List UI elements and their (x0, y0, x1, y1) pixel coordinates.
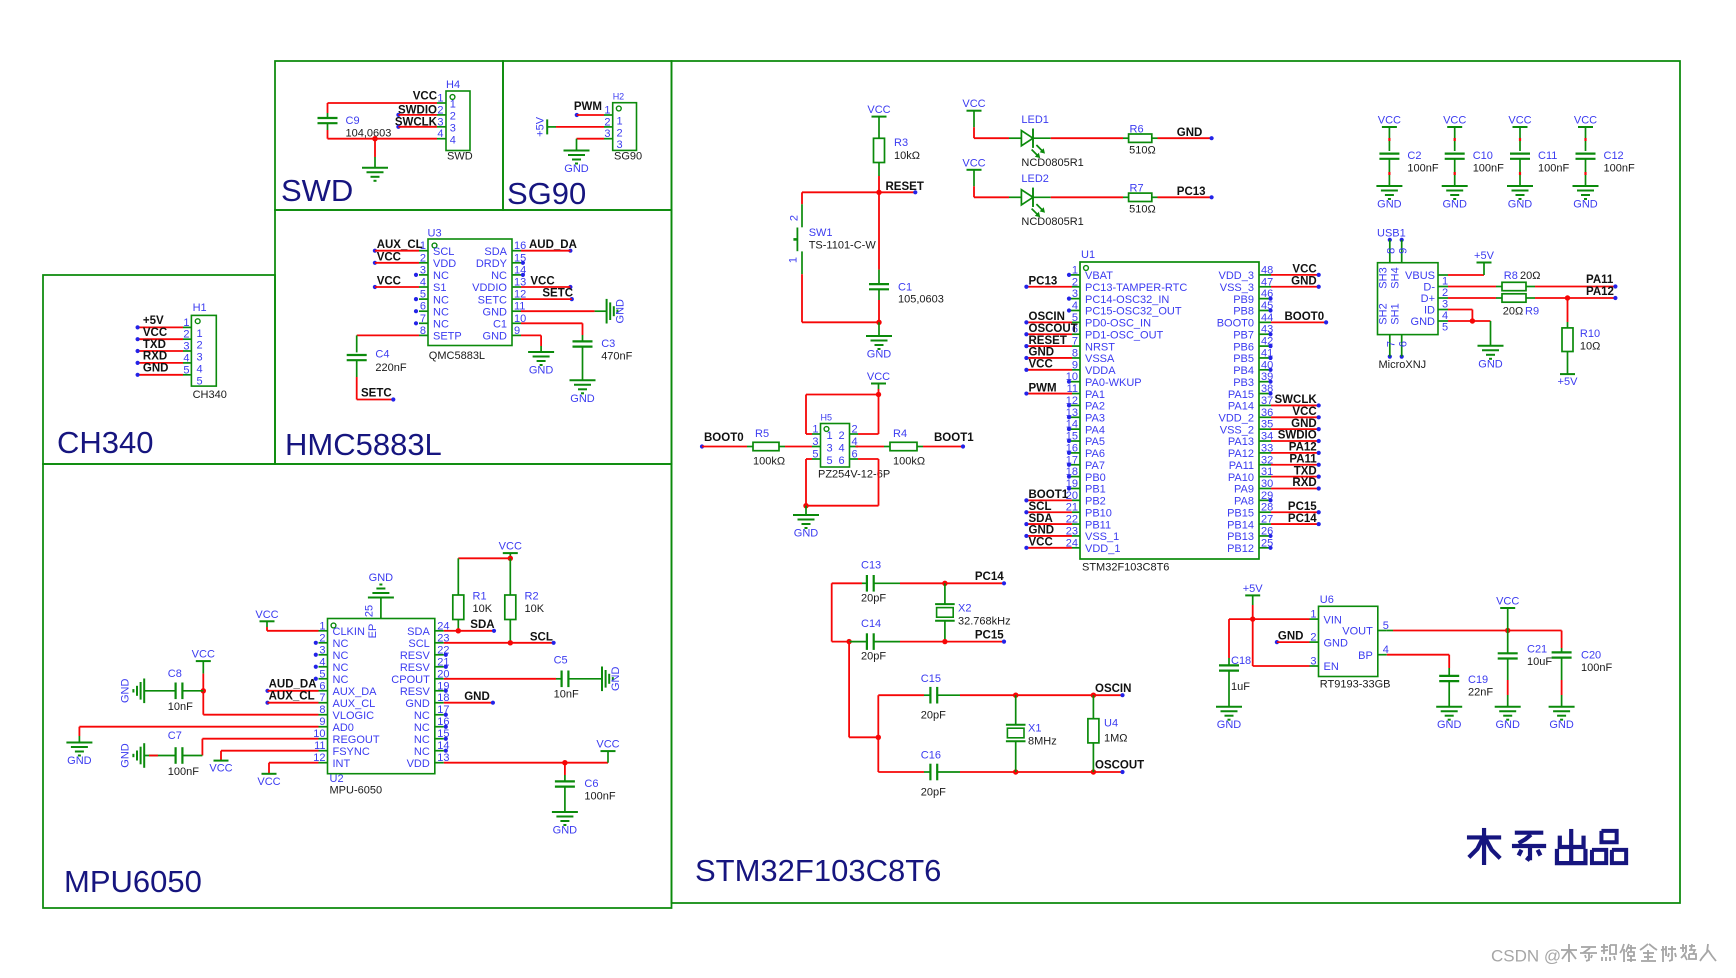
svg-text:SWCLK: SWCLK (1275, 394, 1318, 406)
svg-text:GND: GND (1291, 275, 1317, 287)
svg-text:100nF: 100nF (1473, 163, 1504, 175)
svg-text:NC: NC (333, 650, 349, 662)
svg-text:STM32F103C8T6: STM32F103C8T6 (1082, 562, 1169, 574)
svg-text:R9: R9 (1525, 306, 1539, 318)
svg-text:6: 6 (839, 455, 845, 467)
svg-text:VCC: VCC (1496, 596, 1519, 608)
svg-text:R2: R2 (525, 590, 539, 602)
svg-text:PA2: PA2 (1085, 401, 1105, 413)
svg-text:3: 3 (450, 123, 456, 135)
svg-text:X2: X2 (958, 603, 971, 615)
svg-text:STM32F103C8T6: STM32F103C8T6 (695, 853, 941, 888)
svg-text:PB0: PB0 (1085, 472, 1106, 484)
svg-text:10kΩ: 10kΩ (894, 150, 920, 162)
svg-text:AUX_CL: AUX_CL (333, 698, 376, 710)
svg-text:100nF: 100nF (1604, 163, 1635, 175)
svg-text:GND: GND (483, 306, 508, 318)
svg-text:2: 2 (450, 111, 456, 123)
svg-text:VCC: VCC (209, 763, 232, 775)
svg-text:NRST: NRST (1085, 341, 1115, 353)
svg-text:32.768kHz: 32.768kHz (958, 615, 1011, 627)
svg-text:SW1: SW1 (809, 227, 833, 239)
svg-text:PA3: PA3 (1085, 412, 1105, 424)
svg-text:1: 1 (812, 424, 818, 436)
svg-text:GND: GND (1478, 358, 1503, 370)
svg-text:OSCIN: OSCIN (1029, 311, 1065, 323)
svg-text:VCC: VCC (1292, 264, 1316, 276)
svg-text:VCC: VCC (499, 541, 522, 553)
svg-text:VSS_1: VSS_1 (1085, 531, 1119, 543)
svg-text:C20: C20 (1581, 650, 1601, 662)
svg-text:VSS_3: VSS_3 (1220, 282, 1254, 294)
svg-text:GND: GND (1177, 127, 1203, 139)
svg-text:PA14: PA14 (1228, 401, 1254, 413)
svg-text:PC13: PC13 (1177, 186, 1206, 198)
svg-text:TXD: TXD (143, 339, 166, 351)
svg-text:VCC: VCC (867, 371, 890, 383)
svg-text:SWDIO: SWDIO (1278, 430, 1317, 442)
svg-text:VCC: VCC (530, 276, 554, 288)
svg-text:+5V: +5V (535, 116, 547, 137)
svg-text:VBUS: VBUS (1405, 270, 1435, 282)
svg-text:H4: H4 (446, 79, 460, 91)
svg-text:PB1: PB1 (1085, 484, 1106, 496)
svg-text:U3: U3 (428, 228, 442, 240)
svg-text:GND: GND (1437, 719, 1462, 731)
svg-text:C6: C6 (584, 778, 598, 790)
svg-text:AUD_DA: AUD_DA (269, 678, 317, 690)
svg-text:SDA: SDA (484, 246, 507, 258)
svg-text:SH1: SH1 (1390, 303, 1402, 324)
svg-text:2: 2 (617, 127, 623, 139)
svg-text:VCC: VCC (255, 609, 278, 621)
svg-text:RESV: RESV (400, 650, 431, 662)
svg-text:VCC: VCC (596, 739, 619, 751)
svg-text:SG90: SG90 (614, 151, 642, 163)
svg-text:NC: NC (333, 674, 349, 686)
svg-text:C7: C7 (168, 730, 182, 742)
svg-text:GND: GND (1549, 719, 1574, 731)
svg-text:VCC: VCC (1508, 115, 1531, 127)
svg-text:C1: C1 (493, 319, 507, 331)
svg-text:NC: NC (414, 746, 430, 758)
svg-text:22nF: 22nF (1468, 687, 1493, 699)
svg-text:20Ω: 20Ω (1503, 306, 1523, 318)
svg-text:CH340: CH340 (57, 425, 154, 460)
svg-text:5: 5 (827, 455, 833, 467)
svg-text:OSCIN: OSCIN (1095, 683, 1131, 695)
svg-text:1: 1 (450, 99, 456, 111)
svg-text:TXD: TXD (1294, 465, 1317, 477)
svg-text:PA0-WKUP: PA0-WKUP (1085, 377, 1142, 389)
svg-text:PB14: PB14 (1227, 519, 1254, 531)
svg-text:PA12: PA12 (1586, 286, 1614, 298)
svg-text:RESV: RESV (400, 662, 431, 674)
svg-text:NC: NC (333, 638, 349, 650)
svg-text:GND: GND (1411, 316, 1436, 328)
svg-text:100nF: 100nF (1407, 163, 1438, 175)
svg-text:NC: NC (333, 662, 349, 674)
svg-text:GND: GND (483, 331, 508, 343)
svg-text:PB9: PB9 (1233, 294, 1254, 306)
svg-text:PC15: PC15 (1288, 501, 1317, 513)
svg-text:4: 4 (420, 277, 426, 289)
svg-text:RESET: RESET (886, 181, 924, 193)
svg-text:VCC: VCC (377, 251, 401, 263)
svg-text:PB5: PB5 (1233, 353, 1254, 365)
svg-text:3: 3 (827, 442, 833, 454)
svg-text:GND: GND (553, 825, 578, 837)
svg-text:BOOT1: BOOT1 (934, 432, 974, 444)
svg-text:CPOUT: CPOUT (391, 674, 430, 686)
svg-text:4: 4 (450, 134, 456, 146)
svg-text:470nF: 470nF (601, 351, 632, 363)
svg-text:GND: GND (1278, 631, 1304, 643)
svg-text:NC: NC (414, 710, 430, 722)
svg-text:VCC: VCC (962, 98, 985, 110)
svg-text:25: 25 (364, 605, 376, 617)
svg-text:RT9193-33GB: RT9193-33GB (1320, 679, 1391, 691)
svg-text:NC: NC (433, 319, 449, 331)
svg-text:8MHz: 8MHz (1028, 735, 1057, 747)
svg-text:OSCOUT: OSCOUT (1029, 323, 1078, 335)
svg-text:5: 5 (812, 449, 818, 461)
svg-text:1: 1 (183, 317, 189, 329)
svg-text:U2: U2 (330, 773, 344, 785)
svg-text:SCL: SCL (408, 638, 429, 650)
svg-text:C13: C13 (861, 560, 881, 572)
svg-text:PWM: PWM (574, 101, 602, 113)
svg-text:9: 9 (1398, 248, 1410, 254)
svg-text:EP: EP (367, 624, 379, 639)
svg-text:+5V: +5V (1243, 583, 1264, 595)
svg-text:SWD: SWD (447, 151, 473, 163)
svg-text:HMC5883L: HMC5883L (285, 427, 442, 462)
svg-text:RESET: RESET (1029, 335, 1067, 347)
svg-text:20pF: 20pF (921, 787, 946, 799)
svg-text:VSSA: VSSA (1085, 353, 1115, 365)
svg-text:GND: GND (369, 572, 394, 584)
svg-text:VCC: VCC (192, 649, 215, 661)
svg-text:BOOT0: BOOT0 (704, 432, 744, 444)
svg-text:SETC: SETC (478, 294, 507, 306)
svg-text:PA11: PA11 (1229, 460, 1254, 472)
svg-text:10K: 10K (473, 603, 493, 615)
svg-text:2: 2 (420, 252, 426, 264)
svg-text:PB10: PB10 (1085, 507, 1112, 519)
svg-text:NCD0805R1: NCD0805R1 (1021, 157, 1083, 169)
svg-text:100kΩ: 100kΩ (753, 456, 785, 468)
svg-text:VDDIO: VDDIO (472, 282, 507, 294)
svg-text:C19: C19 (1468, 674, 1488, 686)
svg-text:TS-1101-C-W: TS-1101-C-W (809, 240, 877, 252)
svg-text:VCC: VCC (1443, 115, 1466, 127)
svg-text:R3: R3 (894, 137, 908, 149)
svg-text:1uF: 1uF (1231, 681, 1250, 693)
svg-text:PD1-OSC_OUT: PD1-OSC_OUT (1085, 329, 1164, 341)
svg-text:R1: R1 (473, 590, 487, 602)
svg-text:1: 1 (827, 430, 833, 442)
svg-text:7: 7 (1386, 341, 1398, 347)
svg-text:2: 2 (789, 215, 801, 221)
svg-text:2: 2 (319, 632, 325, 644)
svg-text:SDA: SDA (1029, 513, 1053, 525)
svg-text:VCC: VCC (257, 776, 280, 788)
svg-text:PC14-OSC32_IN: PC14-OSC32_IN (1085, 294, 1169, 306)
svg-text:PA11: PA11 (1586, 274, 1614, 286)
svg-text:C12: C12 (1604, 150, 1624, 162)
svg-text:9: 9 (514, 325, 520, 337)
svg-text:100nF: 100nF (1538, 163, 1569, 175)
svg-text:VOUT: VOUT (1342, 626, 1373, 638)
svg-text:10K: 10K (525, 603, 545, 615)
svg-text:GND: GND (564, 163, 589, 175)
svg-text:VCC: VCC (377, 276, 401, 288)
svg-text:220nF: 220nF (375, 362, 406, 374)
svg-text:8: 8 (319, 704, 325, 716)
svg-text:SH3: SH3 (1378, 267, 1390, 288)
svg-text:10Ω: 10Ω (1580, 341, 1600, 353)
svg-text:C4: C4 (375, 349, 389, 361)
svg-text:8: 8 (1386, 248, 1398, 254)
svg-text:PA5: PA5 (1085, 436, 1105, 448)
svg-text:GND: GND (1324, 637, 1349, 649)
svg-text:GND: GND (120, 743, 132, 768)
svg-text:GND: GND (1029, 525, 1055, 537)
svg-text:PC13-TAMPER-RTC: PC13-TAMPER-RTC (1085, 282, 1187, 294)
svg-text:4: 4 (319, 656, 325, 668)
svg-text:BOOT1: BOOT1 (1029, 489, 1069, 501)
svg-text:PB2: PB2 (1085, 496, 1106, 508)
svg-text:VDD: VDD (407, 758, 430, 770)
svg-text:GND: GND (143, 363, 169, 375)
svg-text:GND: GND (867, 349, 892, 361)
svg-text:PA4: PA4 (1085, 424, 1105, 436)
svg-text:VCC: VCC (413, 91, 437, 103)
svg-text:105,0603: 105,0603 (898, 294, 944, 306)
svg-text:GND: GND (405, 698, 430, 710)
svg-text:H2: H2 (613, 92, 625, 102)
svg-text:GND: GND (1442, 199, 1467, 211)
svg-text:C16: C16 (921, 750, 941, 762)
svg-text:X1: X1 (1028, 723, 1041, 735)
svg-text:SETC: SETC (542, 288, 573, 300)
svg-text:ID: ID (1424, 305, 1435, 317)
svg-text:CSDN @: CSDN @ (1491, 947, 1561, 966)
svg-text:SCL: SCL (1029, 501, 1052, 513)
svg-text:PC14: PC14 (1288, 513, 1317, 525)
svg-text:RXD: RXD (143, 351, 167, 363)
svg-text:NC: NC (433, 294, 449, 306)
svg-text:NC: NC (433, 270, 449, 282)
svg-text:PA10: PA10 (1228, 472, 1254, 484)
svg-text:SCL: SCL (530, 631, 553, 643)
svg-text:PA15: PA15 (1228, 389, 1254, 401)
svg-text:BOOT0: BOOT0 (1284, 311, 1324, 323)
svg-text:PA7: PA7 (1085, 460, 1105, 472)
svg-text:4: 4 (197, 363, 203, 375)
svg-text:VCC: VCC (1292, 406, 1316, 418)
svg-text:VCC: VCC (1029, 537, 1053, 549)
svg-text:5: 5 (1442, 322, 1448, 334)
svg-text:D+: D+ (1421, 293, 1435, 305)
svg-text:U1: U1 (1081, 249, 1095, 261)
svg-text:AUX_CL: AUX_CL (377, 239, 423, 251)
svg-text:7: 7 (319, 692, 325, 704)
svg-text:GND: GND (67, 755, 92, 767)
svg-text:PB13: PB13 (1227, 531, 1254, 543)
svg-text:10uF: 10uF (1527, 656, 1552, 668)
svg-text:GND: GND (570, 393, 595, 405)
svg-text:AUX_DA: AUX_DA (333, 686, 378, 698)
svg-text:1: 1 (617, 116, 623, 128)
svg-text:R7: R7 (1130, 183, 1144, 195)
svg-text:SETC: SETC (361, 388, 392, 400)
svg-text:PC15: PC15 (975, 629, 1004, 641)
svg-text:1: 1 (197, 328, 203, 340)
svg-text:6: 6 (420, 301, 426, 313)
svg-text:2: 2 (183, 329, 189, 341)
svg-text:PC13: PC13 (1029, 275, 1058, 287)
svg-text:PWM: PWM (1029, 382, 1057, 394)
svg-text:1: 1 (788, 257, 800, 263)
svg-text:EN: EN (1324, 661, 1339, 673)
svg-text:VDD_2: VDD_2 (1219, 412, 1254, 424)
svg-text:VCC: VCC (962, 157, 985, 169)
svg-text:GND: GND (1217, 719, 1242, 731)
svg-text:AUX_CL: AUX_CL (269, 690, 315, 702)
svg-text:C15: C15 (921, 673, 941, 685)
svg-text:GND: GND (1029, 347, 1055, 359)
svg-text:BP: BP (1358, 650, 1373, 662)
svg-text:PC14: PC14 (975, 571, 1004, 583)
svg-text:GND: GND (615, 299, 627, 324)
svg-text:REGOUT: REGOUT (333, 734, 380, 746)
svg-text:PA13: PA13 (1228, 436, 1254, 448)
svg-text:10nF: 10nF (168, 701, 193, 713)
svg-text:6: 6 (319, 680, 325, 692)
svg-text:PB6: PB6 (1233, 341, 1254, 353)
svg-text:U4: U4 (1104, 718, 1118, 730)
svg-text:C8: C8 (168, 668, 182, 680)
svg-text:GND: GND (1573, 199, 1598, 211)
svg-text:4: 4 (839, 442, 845, 454)
svg-text:510Ω: 510Ω (1129, 145, 1156, 157)
svg-text:3: 3 (812, 436, 818, 448)
svg-text:510Ω: 510Ω (1129, 204, 1156, 216)
svg-text:PA11: PA11 (1289, 453, 1317, 465)
svg-text:MicroXNJ: MicroXNJ (1379, 359, 1427, 371)
svg-text:1: 1 (604, 105, 610, 117)
svg-text:20pF: 20pF (861, 651, 886, 663)
svg-text:PA9: PA9 (1234, 484, 1254, 496)
svg-text:SWD: SWD (281, 173, 353, 208)
svg-text:AD0: AD0 (333, 722, 354, 734)
svg-text:2: 2 (197, 340, 203, 352)
svg-text:GND: GND (1377, 199, 1402, 211)
svg-text:PB12: PB12 (1227, 543, 1254, 555)
svg-text:R5: R5 (755, 428, 769, 440)
svg-text:PD0-OSC_IN: PD0-OSC_IN (1085, 318, 1151, 330)
svg-text:MPU-6050: MPU-6050 (330, 785, 383, 797)
svg-text:+5V: +5V (1474, 250, 1495, 262)
svg-text:GND: GND (794, 528, 819, 540)
svg-text:PB4: PB4 (1233, 365, 1254, 377)
svg-text:H1: H1 (193, 302, 207, 314)
svg-text:VCC: VCC (867, 104, 890, 116)
svg-text:SDA: SDA (407, 626, 430, 638)
svg-text:GND: GND (464, 691, 490, 703)
svg-text:PA12: PA12 (1289, 442, 1317, 454)
svg-text:C14: C14 (861, 618, 881, 630)
svg-text:D-: D- (1423, 282, 1435, 294)
svg-text:SH4: SH4 (1390, 267, 1402, 288)
svg-text:2: 2 (604, 116, 610, 128)
svg-text:3: 3 (617, 139, 623, 151)
svg-text:VCC: VCC (1378, 115, 1401, 127)
svg-text:6: 6 (852, 449, 858, 461)
svg-text:C5: C5 (554, 655, 568, 667)
svg-text:VDD: VDD (433, 258, 456, 270)
svg-text:5: 5 (319, 668, 325, 680)
svg-text:PA8: PA8 (1234, 496, 1254, 508)
svg-text:5: 5 (183, 364, 189, 376)
svg-text:BOOT0: BOOT0 (1217, 318, 1254, 330)
svg-text:NC: NC (433, 306, 449, 318)
svg-text:SG90: SG90 (507, 176, 586, 211)
svg-text:VDDA: VDDA (1085, 365, 1116, 377)
svg-text:4: 4 (183, 352, 189, 364)
svg-text:3: 3 (604, 128, 610, 140)
svg-text:6: 6 (1398, 341, 1410, 347)
svg-text:NC: NC (414, 734, 430, 746)
svg-text:100kΩ: 100kΩ (893, 456, 925, 468)
svg-text:R4: R4 (893, 428, 907, 440)
svg-text:100nF: 100nF (168, 766, 199, 778)
svg-text:C11: C11 (1538, 150, 1557, 162)
svg-text:C3: C3 (601, 338, 615, 350)
svg-text:20pF: 20pF (861, 593, 886, 605)
svg-text:1MΩ: 1MΩ (1104, 732, 1128, 744)
svg-text:FSYNC: FSYNC (333, 746, 370, 758)
svg-text:3: 3 (437, 116, 443, 128)
svg-text:NC: NC (414, 722, 430, 734)
svg-text:2: 2 (437, 104, 443, 116)
svg-text:DRDY: DRDY (476, 258, 508, 270)
svg-text:C2: C2 (1407, 150, 1421, 162)
svg-text:CLKIN: CLKIN (333, 626, 365, 638)
svg-text:8: 8 (420, 325, 426, 337)
svg-text:3: 3 (420, 264, 426, 276)
svg-text:QMC5883L: QMC5883L (429, 350, 485, 362)
svg-text:2: 2 (1310, 632, 1316, 644)
svg-text:C10: C10 (1473, 150, 1493, 162)
svg-text:LED2: LED2 (1021, 173, 1049, 185)
svg-text:GND: GND (1495, 719, 1520, 731)
svg-text:5: 5 (420, 289, 426, 301)
svg-text:NCD0805R1: NCD0805R1 (1021, 216, 1083, 228)
svg-text:GND: GND (1291, 418, 1317, 430)
svg-text:104,0603: 104,0603 (346, 128, 392, 140)
svg-text:2: 2 (839, 430, 845, 442)
svg-text:PB7: PB7 (1233, 329, 1254, 341)
svg-text:PC15-OSC32_OUT: PC15-OSC32_OUT (1085, 306, 1182, 318)
svg-text:LED1: LED1 (1021, 114, 1049, 126)
svg-text:4: 4 (437, 128, 443, 140)
svg-text:VIN: VIN (1324, 614, 1342, 626)
svg-text:PB3: PB3 (1233, 377, 1254, 389)
svg-text:100nF: 100nF (1581, 662, 1612, 674)
